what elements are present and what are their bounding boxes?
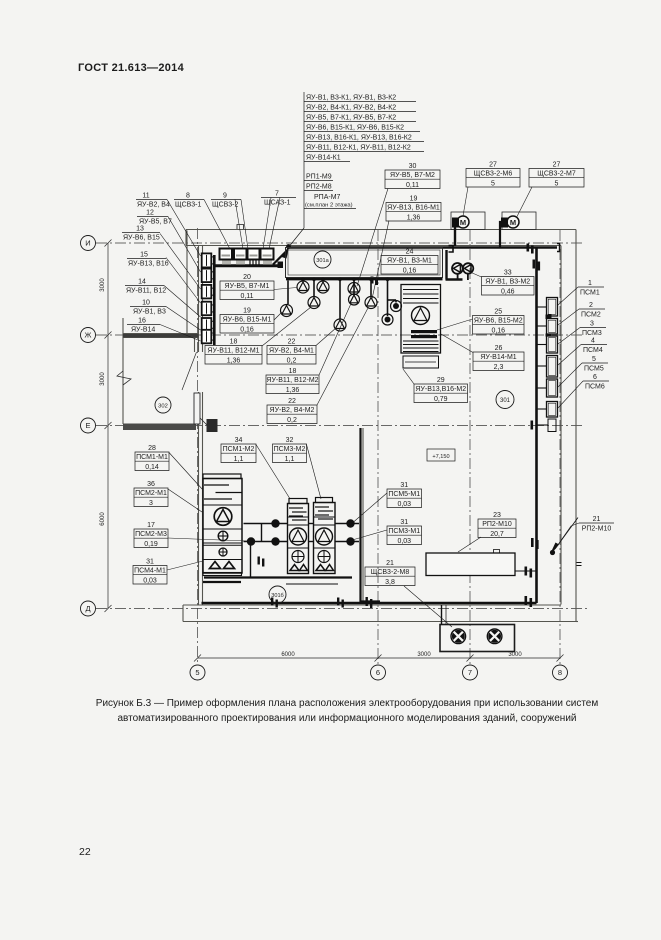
label 30 ЯУ-В5,В7-М2 <box>385 170 440 189</box>
svg-text:31: 31 <box>146 559 154 566</box>
svg-text:ЯУ-В6, В15-М1: ЯУ-В6, В15-М1 <box>223 317 272 324</box>
svg-text:18: 18 <box>230 339 238 346</box>
wire: riser down right side <box>535 248 538 604</box>
svg-text:0,46: 0,46 <box>501 288 515 295</box>
svg-text:7: 7 <box>468 668 472 677</box>
svg-text:6: 6 <box>593 374 597 381</box>
wire: bus along top wall <box>289 246 558 249</box>
room circle 301а <box>314 251 331 268</box>
wire: cable riser along wall x=360.5 <box>361 428 381 602</box>
svg-text:ЯУ-В1, В3: ЯУ-В1, В3 <box>133 309 166 316</box>
svg-text:22: 22 <box>288 339 296 346</box>
svg-text:25: 25 <box>494 309 502 316</box>
label 19 ЯУ-В6,В15-М1 <box>220 315 274 334</box>
wall between 301б and right room <box>362 428 364 602</box>
svg-text:301: 301 <box>500 398 511 404</box>
arrowhead of entry arrow <box>282 245 290 259</box>
svg-text:ЯУ-В2, В4-К1, ЯУ-В2, В4-К2: ЯУ-В2, В4-К1, ЯУ-В2, В4-К2 <box>306 105 396 112</box>
svg-text:302: 302 <box>158 403 168 409</box>
svg-text:36: 36 <box>147 481 155 488</box>
svg-text:ЯУ-В11, В12: ЯУ-В11, В12 <box>126 288 166 295</box>
svg-text:32: 32 <box>286 437 294 444</box>
svg-text:27: 27 <box>489 162 497 169</box>
motor M6 <box>452 218 459 228</box>
svg-text:3000: 3000 <box>100 278 106 292</box>
svg-text:1: 1 <box>588 280 592 287</box>
svg-text:0,14: 0,14 <box>145 464 159 471</box>
clamp at wall crossing <box>449 246 454 253</box>
svg-text:ЯУ-В1, В3-М2: ЯУ-В1, В3-М2 <box>485 279 530 286</box>
label 21 РП2-М10 (2-line) <box>579 522 614 524</box>
motor M7 <box>501 218 508 228</box>
svg-text:Ж: Ж <box>85 331 92 340</box>
axis Д line <box>96 608 590 610</box>
svg-text:14: 14 <box>138 279 146 286</box>
door opening mark п on top wall <box>237 225 244 230</box>
svg-text:ПСМ4: ПСМ4 <box>583 347 603 354</box>
svg-text:0,11: 0,11 <box>240 293 253 300</box>
svg-text:5: 5 <box>592 356 596 363</box>
label 31 ПСМ4-М1 <box>133 566 167 585</box>
left wall of hall <box>198 246 200 353</box>
wall break zigzag on 302 left wall <box>117 371 131 385</box>
svg-text:0,19: 0,19 <box>144 541 158 548</box>
svg-text:ПСМ2: ПСМ2 <box>581 312 601 319</box>
svg-text:5: 5 <box>491 180 495 187</box>
label 27 ЩСВ3-2-М7 <box>529 169 584 188</box>
svg-text:автоматизированного проектиров: автоматизированного проектирования или и… <box>117 712 576 724</box>
label 20 ЯУ-В5,В7-М1 <box>220 281 274 300</box>
svg-text:ЯУ-В1, В3-К1, ЯУ-В1, В3-К2: ЯУ-В1, В3-К1, ЯУ-В1, В3-К2 <box>306 95 396 102</box>
svg-text:3,8: 3,8 <box>385 579 395 586</box>
duct wall line x=187 <box>186 231 188 336</box>
svg-text:ГОСТ 21.613—2014: ГОСТ 21.613—2014 <box>78 62 185 74</box>
small valve ⊕ <box>219 548 227 556</box>
svg-text:0,79: 0,79 <box>434 396 448 403</box>
top wall <box>186 229 576 231</box>
label 28 ПСМ1-М1 <box>135 452 169 471</box>
svg-text:ЩСАЗ-1: ЩСАЗ-1 <box>264 200 291 207</box>
door jamb diagonal near pier <box>196 414 208 426</box>
svg-text:13: 13 <box>136 226 144 233</box>
svg-text:0,16: 0,16 <box>240 326 254 333</box>
svg-text:0,16: 0,16 <box>491 327 505 334</box>
svg-text:РП2-М10: РП2-М10 <box>482 521 512 528</box>
svg-text:ЯУ-В6, В15: ЯУ-В6, В15 <box>123 235 160 242</box>
wire to fan unit <box>441 605 443 625</box>
svg-text:ПСМ3-М2: ПСМ3-М2 <box>274 446 306 453</box>
axis circle Д <box>81 601 96 616</box>
clamps room 301б <box>258 557 373 609</box>
svg-text:31: 31 <box>400 482 408 489</box>
drop wires <box>302 281 304 282</box>
label 22 ЯУ-В2,В4-М2 <box>267 405 317 424</box>
svg-text:ЯУ-В13,В16-М2: ЯУ-В13,В16-М2 <box>415 386 466 393</box>
svg-text:20,7: 20,7 <box>490 531 504 538</box>
svg-text:27: 27 <box>553 162 561 169</box>
pump symbols (circle with triangle) <box>281 281 378 331</box>
svg-text:ПСМ1-М2: ПСМ1-М2 <box>223 446 255 453</box>
svg-text:M: M <box>510 218 516 227</box>
room circle 301 <box>496 391 514 409</box>
level mark +7,150 <box>427 449 455 461</box>
svg-text:24: 24 <box>406 249 414 256</box>
svg-text:ЯУ-В14-К1: ЯУ-В14-К1 <box>306 155 341 162</box>
label 32 ПСМ3-М2 <box>273 444 307 463</box>
hatch under panel 3 <box>250 260 259 265</box>
svg-text:ПСМ1: ПСМ1 <box>580 290 600 297</box>
label 26 ЯУ-В14-М1 <box>473 352 524 371</box>
svg-text:ЯУ-В13, В16-М1: ЯУ-В13, В16-М1 <box>387 205 440 212</box>
axis 6 line <box>377 230 379 665</box>
axis 5 line <box>197 228 199 665</box>
room circle 301б <box>269 586 286 603</box>
valve ⊕ <box>218 531 228 541</box>
svg-text:22: 22 <box>288 398 296 405</box>
svg-text:4: 4 <box>591 338 595 345</box>
room circle 302 <box>155 397 171 413</box>
svg-text:6000: 6000 <box>100 512 106 526</box>
black separators in ПСМ column <box>546 315 552 320</box>
axis Е line <box>96 425 582 427</box>
wire: tray under platform <box>286 278 443 281</box>
svg-text:6000: 6000 <box>281 652 295 658</box>
wire: bus under top panels <box>215 264 282 267</box>
label 17 ПСМ2-М3 <box>134 529 168 548</box>
svg-text:ЩСВ3-2-М8: ЩСВ3-2-М8 <box>371 569 410 576</box>
svg-text:ЯУ-В14-М1: ЯУ-В14-М1 <box>480 354 516 361</box>
21 РП2-М10 arrow and dot <box>550 550 555 555</box>
svg-text:+7,150: +7,150 <box>432 454 449 460</box>
svg-text:РПА-М7: РПА-М7 <box>314 194 341 201</box>
clamp on tray <box>371 277 374 284</box>
svg-text:18: 18 <box>289 368 297 375</box>
svg-text:7: 7 <box>275 191 279 198</box>
svg-text:0,11: 0,11 <box>406 182 419 189</box>
bottom wall <box>183 604 561 606</box>
svg-text:6: 6 <box>376 668 380 677</box>
label 24 ЯУ-В1,В3-М1 <box>381 256 438 275</box>
svg-text:8: 8 <box>186 193 190 200</box>
svg-text:ПСМ6: ПСМ6 <box>585 384 605 391</box>
svg-text:16: 16 <box>138 318 146 325</box>
svg-text:ПСМ3: ПСМ3 <box>582 330 602 337</box>
svg-text:ЯУ-В11, В12-М2: ЯУ-В11, В12-М2 <box>266 377 318 384</box>
svg-text:0,16: 0,16 <box>403 267 417 274</box>
svg-text:9: 9 <box>223 193 227 200</box>
svg-text:20: 20 <box>243 274 251 281</box>
svg-text:ЯУ-В14: ЯУ-В14 <box>131 327 155 334</box>
svg-text:ПСМ3-М1: ПСМ3-М1 <box>388 528 420 535</box>
svg-text:8: 8 <box>558 668 562 677</box>
svg-text:И: И <box>85 239 90 248</box>
svg-text:РП1-М9: РП1-М9 <box>306 174 332 181</box>
svg-text:31: 31 <box>400 519 408 526</box>
svg-text:ПСМ2-М1: ПСМ2-М1 <box>135 490 167 497</box>
svg-text:Д: Д <box>85 604 90 613</box>
axis circle Е <box>81 418 96 433</box>
pump <box>214 508 232 526</box>
svg-text:ЯУ-В6, В15-М2: ЯУ-В6, В15-М2 <box>474 318 523 325</box>
wire: motor M7 drop <box>500 222 508 248</box>
axis Ж line <box>96 334 582 336</box>
label 36 ПСМ2-М1 <box>134 488 168 507</box>
label 33 ЯУ-В1,В3-М2 <box>482 277 535 296</box>
svg-text:15: 15 <box>140 252 148 259</box>
room 302 top wall <box>123 333 199 335</box>
axis circle И <box>81 236 96 251</box>
svg-text:1,36: 1,36 <box>286 387 300 394</box>
svg-text:0,03: 0,03 <box>397 501 411 508</box>
room 302 top wall fill <box>123 334 199 338</box>
wall tick right side <box>577 563 582 566</box>
svg-text:ЯУ-В2, В4: ЯУ-В2, В4 <box>137 202 170 209</box>
axis circle 8 <box>553 665 568 680</box>
axis 8 line <box>559 230 561 665</box>
left dimension line <box>105 240 112 613</box>
svg-text:5: 5 <box>195 668 199 677</box>
label 18 ЯУ-В11,В12-М1 <box>205 346 262 365</box>
label 31 ПСМ3-М1 <box>387 526 422 545</box>
svg-text:11: 11 <box>142 193 149 200</box>
axis И line <box>96 242 582 244</box>
label 23 РП2-М10 <box>478 519 516 538</box>
label 18 ЯУ-В11,В12-М2 <box>266 375 319 394</box>
bottom dimension line <box>194 655 564 662</box>
svg-text:29: 29 <box>437 377 445 384</box>
junction dots on tray <box>301 278 389 281</box>
svg-text:ЯУ-В6, В15-К1, ЯУ-В6, В15-К2: ЯУ-В6, В15-К1, ЯУ-В6, В15-К2 <box>306 125 404 132</box>
roof box 2 <box>502 212 536 230</box>
svg-text:0,03: 0,03 <box>397 538 411 545</box>
filter triangles <box>210 562 221 569</box>
svg-text:РП2-М8: РП2-М8 <box>306 184 332 191</box>
svg-text:19: 19 <box>243 308 251 315</box>
svg-text:ЯУ-В2, В4-М1: ЯУ-В2, В4-М1 <box>269 348 314 355</box>
wire: bus in room 301б <box>204 576 352 578</box>
svg-text:ЯУ-В5, В7-К1, ЯУ-В5, В7-К2: ЯУ-В5, В7-К1, ЯУ-В5, В7-К2 <box>306 115 396 122</box>
label 29 ЯУ-В13,В16-М2 <box>414 384 468 403</box>
svg-text:1,36: 1,36 <box>227 357 241 364</box>
svg-text:2,3: 2,3 <box>494 364 504 371</box>
svg-text:ЯУ-В11, В12-К1, ЯУ-В11, В12-К2: ЯУ-В11, В12-К1, ЯУ-В11, В12-К2 <box>306 145 411 152</box>
svg-text:3: 3 <box>149 500 153 507</box>
wire: vertical bus on left panel column <box>213 255 216 345</box>
svg-text:10: 10 <box>142 300 150 307</box>
svg-text:0,2: 0,2 <box>287 417 297 424</box>
svg-text:21: 21 <box>593 516 601 523</box>
label 22 ЯУ-В2,В4-М1 <box>267 346 316 365</box>
svg-text:30: 30 <box>409 163 417 170</box>
label 19 ЯУ-В13,В16-М1 (top) <box>386 203 441 222</box>
svg-text:ЩСВ3-1: ЩСВ3-1 <box>175 202 202 209</box>
room 302 bottom wall (hatched band) <box>123 424 196 431</box>
svg-text:ЯУ-В5, В7-М2: ЯУ-В5, В7-М2 <box>390 172 435 179</box>
svg-text:ЯУ-В1, В3-М1: ЯУ-В1, В3-М1 <box>387 258 432 265</box>
svg-text:5: 5 <box>555 180 559 187</box>
svg-text:22: 22 <box>79 846 91 858</box>
svg-text:ПСМ5-М1: ПСМ5-М1 <box>388 491 420 498</box>
svg-text:3000: 3000 <box>508 652 522 658</box>
wire: arrow from bus to wall dot <box>273 250 288 265</box>
svg-text:12: 12 <box>146 210 154 217</box>
svg-text:1,1: 1,1 <box>234 456 244 463</box>
svg-text:ЯУ-В13, В16-К1, ЯУ-В13, В16-К2: ЯУ-В13, В16-К1, ЯУ-В13, В16-К2 <box>306 135 412 142</box>
wire: bottom bus <box>202 602 537 605</box>
svg-text:28: 28 <box>148 445 156 452</box>
wire: motor M6 drop <box>455 223 458 246</box>
label 27 ЩСВ3-2-М6 <box>466 169 520 188</box>
svg-text:26: 26 <box>495 345 503 352</box>
svg-text:ЩСВ3-2-М6: ЩСВ3-2-М6 <box>474 171 513 178</box>
svg-text:Е: Е <box>85 421 90 430</box>
svg-text:ПСМ5: ПСМ5 <box>584 366 604 373</box>
svg-text:ЯУ-В5, В7-М1: ЯУ-В5, В7-М1 <box>225 283 270 290</box>
label 34 ПСМ1-М2 <box>221 444 256 463</box>
svg-text:Рисунок Б.3 — Пример оформлени: Рисунок Б.3 — Пример оформления плана ра… <box>96 697 599 709</box>
label 25 ЯУ-В6,В15-М2 <box>473 316 525 335</box>
svg-text:ЩСВ3-2-М7: ЩСВ3-2-М7 <box>537 171 576 178</box>
axis circle 7 <box>463 665 478 680</box>
junction dot at wall entry <box>286 244 291 249</box>
room 302 left wall <box>122 318 124 424</box>
bus end block <box>278 262 284 269</box>
svg-text:ПСМ2-М3: ПСМ2-М3 <box>135 531 167 538</box>
roof box 1 <box>451 212 485 230</box>
door of room 302 <box>194 393 200 424</box>
svg-text:33: 33 <box>504 270 512 277</box>
end bracket of top bus <box>557 244 560 252</box>
svg-text:19: 19 <box>410 196 418 203</box>
svg-text:ЩСВ3-2: ЩСВ3-2 <box>212 202 239 209</box>
svg-text:17: 17 <box>147 522 155 529</box>
axis 7 line <box>469 230 471 665</box>
dark junction pumps <box>391 301 402 312</box>
axis circle 6 <box>371 665 386 680</box>
svg-text:3: 3 <box>590 321 594 328</box>
label 31 ПСМ5-М1 <box>387 489 422 508</box>
svg-text:2: 2 <box>589 302 593 309</box>
svg-text:ЯУ-В2, В4-М2: ЯУ-В2, В4-М2 <box>270 407 315 414</box>
svg-text:3000: 3000 <box>417 652 431 658</box>
svg-text:301а: 301а <box>316 258 329 264</box>
axis circle 5 <box>190 665 205 680</box>
svg-text:(см.план 2 этажа): (см.план 2 этажа) <box>305 203 353 209</box>
pier at hall corner <box>207 419 218 432</box>
fan unit box below building <box>440 625 515 652</box>
svg-text:1,1: 1,1 <box>285 456 295 463</box>
svg-text:ЯУ-В11, В12-М1: ЯУ-В11, В12-М1 <box>207 348 259 355</box>
right wall <box>575 230 577 622</box>
svg-text:0,2: 0,2 <box>287 357 297 364</box>
svg-text:1,36: 1,36 <box>407 214 421 221</box>
label 21 ЩСВ3-2-М8 <box>365 567 415 586</box>
leaders of top-left callouts <box>160 198 280 342</box>
stubs riser to ПСМ panels <box>538 307 549 425</box>
svg-text:3000: 3000 <box>100 372 106 386</box>
svg-text:23: 23 <box>493 512 501 519</box>
base lines under units <box>203 581 241 583</box>
svg-text:ПСМ4-М1: ПСМ4-М1 <box>134 568 166 575</box>
svg-text:34: 34 <box>235 437 243 444</box>
wall end cap top-left <box>185 230 187 246</box>
svg-text:21: 21 <box>386 560 394 567</box>
svg-text:ЯУ-В13, В16: ЯУ-В13, В16 <box>128 261 169 268</box>
svg-text:ЯУ-В5, В7: ЯУ-В5, В7 <box>139 219 172 226</box>
svg-text:ПСМ1-М1: ПСМ1-М1 <box>136 454 168 461</box>
axis circle Ж <box>81 328 96 343</box>
svg-text:M: M <box>460 218 466 227</box>
svg-text:0,03: 0,03 <box>143 577 157 584</box>
svg-text:РП2-М10: РП2-М10 <box>582 526 612 533</box>
